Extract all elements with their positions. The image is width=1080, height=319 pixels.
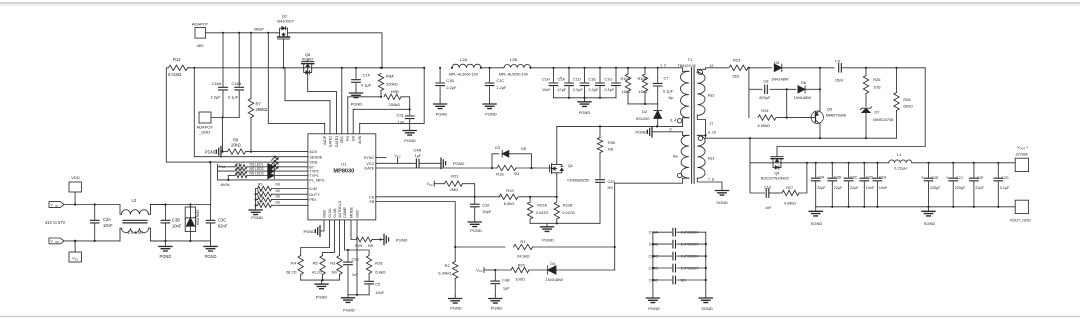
svg-text:1nF/2000V: 1nF/2000V: [681, 231, 700, 235]
svg-text:10nF: 10nF: [172, 224, 182, 229]
svg-text:C2C: C2C: [850, 175, 858, 179]
capacitor C3B: [161, 205, 182, 241]
input flag VSS: [49, 238, 64, 244]
svg-text:Q6: Q6: [305, 52, 311, 57]
svg-text:PGND: PGND: [470, 228, 482, 233]
wire input rail to C3C top: [151, 203, 211, 205]
U1 left pin labels: [309, 150, 324, 202]
ground PGND under cap bank: [578, 98, 591, 115]
wire EN pin line: [353, 109, 410, 134]
svg-text:10nF: 10nF: [879, 186, 888, 190]
wire aux winding riser: [614, 183, 616, 270]
svg-text:100Ω: 100Ω: [515, 277, 524, 282]
inductor L1: [889, 152, 912, 170]
svg-text:1N4148W: 1N4148W: [771, 76, 789, 81]
svg-text:L1: L1: [897, 152, 901, 157]
svg-text:+: +: [946, 175, 949, 180]
capacitor C5: [365, 281, 385, 295]
svg-text:ADAPOT: ADAPOT: [192, 22, 209, 27]
svg-text:TB6129-40: TB6129-40: [678, 64, 696, 68]
page bottom border: [0, 316, 1080, 318]
svg-text:PGND: PGND: [635, 130, 647, 135]
ground PGND under C1B: [434, 100, 448, 117]
svg-text:10pF: 10pF: [482, 209, 492, 214]
wire sense resistor ground rail: [530, 222, 600, 224]
resistor R26: [894, 68, 913, 138]
svg-text:48V: 48V: [196, 43, 203, 48]
svg-text:1μF: 1μF: [415, 153, 423, 158]
resistor R28: [348, 250, 386, 280]
capacitor C2F: [970, 162, 985, 207]
svg-text:1nF/2000V: 1nF/2000V: [681, 254, 700, 258]
ground PGND under R4 rail: [315, 280, 328, 299]
svg-text:TYP1: TYP1: [309, 174, 319, 178]
wire C8 branch: [748, 67, 750, 90]
capacitor C2D: [860, 162, 875, 207]
svg-text:22μF: 22μF: [817, 186, 826, 190]
svg-text:PGND: PGND: [396, 237, 408, 242]
svg-text:L3: L3: [132, 198, 137, 203]
capacitor C1F: [352, 67, 372, 91]
resistor R8: [223, 138, 308, 155]
svg-text:AUX: AUX: [309, 150, 317, 154]
svg-text:R29: R29: [355, 243, 362, 248]
svg-text:MODE: MODE: [349, 207, 353, 218]
wire switch node to Q4: [750, 138, 770, 163]
svg-text:4.99kΩ: 4.99kΩ: [758, 123, 771, 128]
svg-text:Si4100DY: Si4100DY: [277, 20, 295, 24]
wire C14 left rail: [652, 232, 654, 294]
svg-text:10nF: 10nF: [866, 186, 875, 190]
wire Vcc rail LED rows: [217, 167, 219, 180]
svg-text:IN: IN: [55, 205, 58, 208]
svg-text:NS: NS: [332, 269, 338, 274]
wire cap bank rail: [554, 97, 617, 99]
svg-text:4.99kΩ: 4.99kΩ: [784, 202, 796, 206]
svg-text:1nF: 1nF: [765, 206, 772, 210]
svg-text:SENSE: SENSE: [309, 155, 322, 159]
svg-text:PGND: PGND: [205, 149, 217, 154]
transistor Q2 Si4100DY: [277, 14, 295, 41]
resistor R17 NS: [255, 200, 308, 207]
svg-text:C2H: C2H: [879, 175, 887, 179]
diode D2 SS1200: [636, 104, 662, 127]
resistor R16 NS: [255, 195, 308, 202]
svg-text:GATE: GATE: [364, 167, 375, 171]
transformer T1 primary Np: [669, 68, 689, 127]
svg-text:CLSA: CLSA: [328, 208, 332, 218]
svg-text:0.1μF: 0.1μF: [361, 83, 372, 88]
wire FB route: [376, 202, 457, 249]
ground PGND under R22: [541, 223, 554, 242]
svg-text:PGND: PGND: [316, 295, 328, 300]
svg-text:TYP2: TYP2: [309, 170, 319, 174]
transformer T1 secondary Ns1: [697, 131, 722, 187]
svg-text:28.7Ω: 28.7Ω: [286, 269, 297, 274]
svg-text:10nF: 10nF: [103, 223, 113, 228]
svg-text:2 x 1mH: 2 x 1mH: [128, 230, 143, 235]
resistor R25: [863, 68, 880, 107]
diode D6 1N4148W: [794, 80, 822, 100]
svg-text:C3C: C3C: [218, 218, 226, 223]
wire R4 R5 R3 rail: [301, 279, 340, 281]
svg-text:PGND: PGND: [343, 308, 355, 313]
resistor R24: [749, 89, 808, 128]
capacitor C2A: [811, 162, 826, 207]
svg-text:20kΩ: 20kΩ: [231, 143, 241, 148]
resistor R3 NS: [330, 220, 342, 280]
svg-text:C16A: C16A: [212, 81, 222, 86]
svg-text:1, 2: 1, 2: [660, 64, 666, 68]
capacitor C1E: [589, 67, 605, 98]
svg-text:C7: C7: [664, 75, 669, 80]
wire rail L2A-L2B: [481, 67, 504, 69]
svg-text:0.1μF: 0.1μF: [605, 88, 615, 92]
svg-text:5: 5: [669, 128, 671, 132]
svg-text:LED3: LED3: [255, 171, 264, 175]
svg-text:V: V: [51, 239, 54, 243]
net flag VCC at C4B: [476, 267, 495, 273]
svg-text:NS: NS: [681, 278, 687, 282]
capacitor C2G: [994, 162, 1010, 207]
capacitor C3C: [206, 205, 228, 241]
capacitor C9: [835, 59, 925, 83]
terminal ADAPOT: [192, 22, 209, 49]
svg-text:10nF: 10nF: [542, 88, 551, 92]
capacitor C1B: [436, 67, 457, 100]
wire rail L2B to T1: [531, 67, 683, 69]
inductor L2B: [499, 57, 532, 76]
ground PGND under C1C: [483, 100, 497, 117]
svg-text:BSC027N10NS5: BSC027N10NS5: [761, 176, 789, 180]
resistor R9 NS: [256, 182, 308, 190]
svg-text:R2: R2: [445, 263, 451, 268]
svg-text:22μF: 22μF: [975, 186, 984, 190]
resistor R22B: [554, 197, 575, 224]
svg-text:2.2μF: 2.2μF: [589, 88, 599, 92]
label VADP: [254, 27, 265, 32]
svg-text:Q4: Q4: [774, 172, 779, 176]
svg-text:PG: PG: [346, 136, 350, 141]
svg-text:VCC: VCC: [476, 268, 482, 273]
svg-text:2.2μF: 2.2μF: [496, 85, 507, 90]
svg-text:1nF/2000V: 1nF/2000V: [681, 266, 700, 270]
capacitor C14C: [649, 252, 706, 260]
transistor Q6 Si2302: [302, 52, 314, 74]
svg-text:11: 11: [709, 121, 713, 125]
svg-text:PGND: PGND: [159, 254, 171, 259]
svg-text:U1: U1: [341, 162, 347, 167]
wire Q1 source: [556, 175, 558, 197]
svg-text:VOUT_GND: VOUT_GND: [1010, 219, 1031, 223]
main rail after R12: [188, 67, 424, 69]
ground PGND under C1F: [350, 91, 363, 107]
svg-text:VCC: VCC: [427, 182, 433, 187]
svg-text:LED2: LED2: [255, 167, 264, 171]
svg-text:41V to 57V: 41V to 57V: [45, 220, 66, 225]
ground PGND under NS resistors: [249, 208, 263, 221]
wire switch node rail: [706, 137, 897, 139]
transformer T1 core: [692, 68, 695, 184]
svg-text:C9: C9: [835, 59, 840, 64]
svg-text:GND: GND: [322, 210, 326, 218]
svg-text:C4A: C4A: [414, 148, 422, 153]
svg-text:Q2: Q2: [282, 14, 288, 19]
TVS diode D1 SMAJ58A: [185, 205, 199, 241]
capacitor C4B: [491, 270, 510, 296]
svg-text:Na: Na: [673, 155, 679, 159]
ground PGND under C31: [403, 128, 416, 143]
transistor Q4 BSC027N10NS5: [761, 155, 816, 181]
svg-text:SGND: SGND: [701, 306, 713, 311]
capacitor C16B: [228, 33, 244, 118]
svg-text:MP8030: MP8030: [333, 169, 354, 175]
svg-text:VCC: VCC: [366, 162, 374, 166]
svg-text:L2A: L2A: [460, 57, 467, 62]
resistor R2: [438, 247, 457, 296]
svg-text:MMSZ4708: MMSZ4708: [873, 117, 893, 122]
resistor R5: [312, 220, 335, 280]
svg-text:PGND: PGND: [453, 161, 465, 166]
ground PGND under C14 stack: [646, 294, 659, 311]
ground PGND under C3B: [159, 241, 172, 259]
svg-text:2.2μF: 2.2μF: [211, 94, 222, 99]
wire VIN rail top: [64, 203, 120, 205]
svg-text:C1E: C1E: [589, 77, 597, 81]
capacitor C7: [653, 67, 673, 104]
svg-text:SS1200: SS1200: [636, 116, 651, 121]
svg-text:22μF: 22μF: [834, 186, 843, 190]
svg-text:R14: R14: [236, 171, 242, 175]
svg-text:R3: R3: [330, 260, 335, 265]
svg-text:680Ω: 680Ω: [903, 103, 912, 108]
input flag VIN: [49, 202, 64, 208]
svg-text:24.9kΩ: 24.9kΩ: [517, 254, 530, 259]
svg-text:SGND: SGND: [811, 221, 823, 226]
resistor R22A: [527, 197, 548, 224]
wire gate drive route: [777, 68, 925, 155]
svg-text:R12: R12: [173, 57, 181, 62]
capacitor C3A: [90, 205, 112, 241]
terminal VDD: [69, 175, 81, 205]
svg-text:C1F: C1F: [363, 73, 371, 78]
wire VADP pin route: [268, 33, 324, 134]
svg-text:C8: C8: [764, 78, 769, 83]
svg-text:10Ω: 10Ω: [873, 84, 880, 89]
svg-text:NS: NS: [608, 185, 614, 190]
svg-text:390kΩ: 390kΩ: [256, 107, 268, 112]
resistor R9A: [378, 67, 397, 98]
svg-text:R9B: R9B: [391, 89, 399, 94]
svg-text:V: V: [51, 203, 54, 207]
capacitor C32: [470, 197, 491, 220]
svg-text:C28: C28: [352, 257, 359, 262]
svg-text:R22B: R22B: [563, 203, 573, 208]
svg-text:D7: D7: [875, 110, 880, 115]
svg-text:0.016Ω: 0.016Ω: [168, 72, 181, 77]
svg-text:ILIM: ILIM: [309, 187, 316, 191]
terminal VOUT_GND: [1010, 200, 1031, 222]
page top border: [0, 3, 1080, 5]
svg-text:200kΩ: 200kΩ: [386, 82, 398, 87]
svg-text:R25: R25: [873, 77, 880, 82]
diode D4 1N4148W: [546, 261, 615, 282]
svg-text:R16: R16: [257, 195, 263, 199]
svg-text:CLSB: CLSB: [333, 208, 337, 218]
svg-text:22μF: 22μF: [850, 186, 859, 190]
svg-text:12V/8A: 12V/8A: [1015, 152, 1028, 156]
svg-text:2.2μF: 2.2μF: [446, 85, 457, 90]
wire R12 left leg: [166, 68, 210, 162]
svg-text:C1D: C1D: [573, 77, 581, 81]
svg-text:0.047Ω: 0.047Ω: [562, 210, 575, 215]
ground PGND under C3C: [204, 241, 217, 259]
capacitor C2B: [828, 162, 843, 207]
wire Q2 drain to rail: [288, 33, 384, 69]
wire CS line: [376, 196, 500, 198]
transformer T1 aux winding Na: [615, 128, 689, 184]
svg-text:_GND: _GND: [198, 129, 210, 134]
resistor R10B: [638, 67, 648, 104]
svg-text:D5: D5: [774, 60, 779, 65]
svg-text:MPL-AL5050-100: MPL-AL5050-100: [499, 72, 528, 76]
resistor R4: [286, 220, 329, 280]
capacitor C16A: [211, 33, 228, 118]
svg-text:R10B: R10B: [638, 77, 648, 81]
resistor R7: [248, 33, 267, 153]
svg-text:R9: R9: [258, 182, 262, 186]
svg-text:VSS: VSS: [72, 257, 78, 262]
transistor Q1 FDMS86250: [550, 163, 591, 183]
svg-text:D6: D6: [801, 80, 806, 85]
wire staircase to GATE2: [285, 68, 330, 134]
svg-text:0.1μF: 0.1μF: [663, 89, 674, 94]
svg-text:R28: R28: [375, 260, 382, 265]
wire AVIN to rail: [360, 67, 426, 124]
diode D3 NS: [492, 146, 531, 168]
wire SENSE from R12: [194, 68, 308, 157]
svg-text:220μF: 220μF: [930, 186, 941, 190]
svg-text:C16B: C16B: [232, 81, 242, 86]
diode D5 1N4148W: [771, 60, 834, 81]
capacitor C14B: [649, 240, 706, 248]
svg-text:C10: C10: [764, 186, 771, 190]
svg-text:D3: D3: [495, 146, 500, 150]
U1 right pin labels: [364, 156, 375, 204]
svg-text:NS: NS: [368, 243, 374, 248]
op-amp U1 MP8030 body: [308, 134, 376, 220]
svg-text:PGND: PGND: [485, 112, 497, 117]
svg-text:SGND: SGND: [924, 221, 936, 226]
svg-text:PGND: PGND: [436, 112, 448, 117]
ground SGND under C2A: [809, 207, 822, 226]
wire ADAPOT to Q2: [206, 32, 280, 34]
svg-text:15nF: 15nF: [375, 290, 384, 295]
wire NS resistor ground rail: [255, 189, 257, 208]
svg-text:C29: C29: [608, 179, 615, 184]
svg-text:LED1: LED1: [255, 162, 264, 166]
svg-text:VDD: VDD: [71, 175, 80, 180]
svg-text:C1H: C1H: [542, 77, 550, 81]
resistor R11: [218, 162, 255, 169]
transformer T1 labels: [660, 57, 696, 68]
zener diode D7 MMSZ4708: [860, 107, 893, 140]
svg-text:220μF: 220μF: [955, 186, 966, 190]
svg-text:3, 4: 3, 4: [670, 118, 676, 122]
svg-text:C1G: C1G: [605, 77, 613, 81]
svg-text:C1C: C1C: [496, 78, 504, 83]
capacitor C8: [749, 78, 796, 100]
terminal ADAPOT_GND: [197, 112, 240, 134]
ground PGND inline after C4A: [441, 158, 465, 168]
capacitor C4A: [410, 148, 441, 168]
net flag VCC at LEDs: [218, 164, 226, 169]
capacitor C28: [344, 220, 360, 295]
svg-text:MMBT3906: MMBT3906: [826, 112, 846, 117]
svg-text:VADP: VADP: [323, 135, 327, 145]
svg-text:Ns2: Ns2: [708, 94, 715, 98]
svg-text:820pF: 820pF: [759, 95, 771, 100]
resistor R29 NS: [351, 220, 382, 248]
svg-text:R15: R15: [257, 189, 263, 193]
wire output ground rail: [816, 206, 1016, 208]
svg-text:C32: C32: [482, 203, 490, 208]
svg-text:R26: R26: [903, 97, 910, 102]
wire comp ground rail: [348, 294, 369, 296]
label 41V to 57V: [45, 220, 66, 225]
ground PGND under C4B: [489, 296, 503, 311]
U1 bottom pin labels: [322, 200, 359, 218]
svg-text:NS: NS: [276, 189, 280, 193]
svg-text:PGND: PGND: [579, 110, 591, 115]
svg-text:Np: Np: [669, 96, 674, 100]
wire R12 right junction: [193, 67, 195, 69]
svg-text:R17: R17: [257, 200, 263, 204]
svg-text:EN: EN: [352, 135, 356, 140]
svg-text:R27: R27: [786, 186, 793, 190]
svg-text:PGND: PGND: [205, 254, 217, 259]
svg-text:R7: R7: [256, 102, 262, 107]
ground PGND inline at GND pin: [303, 220, 324, 236]
svg-text:AVIN: AVIN: [358, 135, 362, 144]
svg-text:R30: R30: [608, 140, 616, 145]
resistor R27: [782, 162, 808, 206]
svg-text:41.2Ω: 41.2Ω: [312, 269, 323, 274]
svg-text:1μF: 1μF: [503, 286, 510, 291]
resistor R19: [499, 188, 558, 206]
svg-text:VOUT =: VOUT =: [1017, 146, 1029, 151]
svg-text:C2G: C2G: [1001, 176, 1009, 180]
wire VSS rail bottom: [64, 240, 120, 242]
svg-text:R20: R20: [518, 262, 526, 267]
svg-text:C5: C5: [375, 282, 380, 287]
ground SGND under C2E: [922, 207, 935, 226]
svg-text:C3A: C3A: [103, 217, 111, 222]
capacitor C2J: [946, 162, 966, 207]
svg-text:R11: R11: [236, 162, 242, 166]
wire Q1 drain to transformer: [557, 125, 683, 162]
svg-text:C2F: C2F: [977, 176, 985, 180]
resistor R21: [427, 174, 476, 198]
wire C14 right rail: [705, 232, 707, 294]
svg-text:SMAJ58A: SMAJ58A: [195, 210, 199, 226]
svg-text:16kΩ: 16kΩ: [639, 90, 648, 94]
svg-text:+: +: [560, 75, 563, 80]
capacitor C31: [397, 109, 415, 128]
svg-text:DUTY: DUTY: [309, 193, 320, 197]
capacitor C14D: [649, 264, 706, 272]
svg-text:R23: R23: [733, 58, 741, 63]
